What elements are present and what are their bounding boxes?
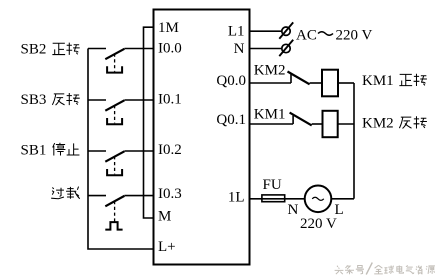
svg-text:N: N [234,41,245,57]
svg-text:1L: 1L [228,189,245,205]
tilde AC supply [318,32,333,36]
left bus wire [88,49,154,250]
svg-text:I0.0: I0.0 [158,41,182,57]
wire to coil KM2 [312,123,323,125]
svg-text:M: M [158,209,171,225]
svg-text:SB3: SB3 [21,92,47,108]
pushbutton SB1 linkage dash [114,156,116,174]
contact KM2 blade [288,72,310,85]
fuse FU [262,195,285,202]
terminal slash L1 [279,22,293,38]
wire SB2 row left [88,48,106,50]
contact KM1 blade [290,113,312,126]
overload linkage dash [114,201,116,222]
wire Q0.0 stub [250,82,292,84]
label fanzhuan SB3 [52,93,79,105]
watermark quanqiu dianqi ziyuan [374,265,435,274]
wire SB2 row right [124,48,153,50]
label tingzhi SB1 [53,143,80,156]
wire coil KM2 to bus [338,123,354,125]
svg-text:L1: L1 [228,24,245,40]
svg-text:I0.2: I0.2 [158,142,182,158]
contact KM2 tick [290,75,292,84]
right bus wire L [353,83,355,199]
svg-text:KM1: KM1 [362,73,394,89]
svg-text:N: N [288,202,299,218]
svg-text:1M: 1M [158,20,179,36]
terminal circle N [282,44,290,52]
PLC box [154,10,250,265]
wire to coil KM1 [310,82,322,84]
wire overload row left [88,195,106,197]
label zhengzhuan KM1 [399,74,427,86]
terminal slash N [279,40,293,56]
wire source to bus [331,198,354,200]
fuse wire through [262,198,285,200]
watermark slash [366,263,372,275]
wire SB3 row right [124,99,153,101]
AC source circle [305,186,332,213]
wire SB1 row right [124,150,153,152]
wire overload row right [124,195,153,197]
pushbutton SB3 contact blade [105,100,124,110]
label zhengzhuan SB2 [52,43,79,55]
svg-text:I0.3: I0.3 [158,186,182,202]
terminal circle L1 [282,27,290,35]
svg-text:AC: AC [296,28,317,44]
pushbutton SB1 actuator cup [107,169,122,175]
svg-text:SB1: SB1 [21,142,47,158]
wire SB3 row left [88,99,106,101]
svg-text:Q0.0: Q0.0 [216,73,246,89]
svg-text:220 V: 220 V [300,216,337,232]
svg-text:SB2: SB2 [21,41,47,57]
wire coil KM1 to bus [338,82,354,84]
overload contact blade [105,196,124,206]
wire N stub [250,48,283,50]
coil KM1 [322,70,338,97]
wire Q0.1 stub [250,123,294,125]
label fanzhuan KM2 [399,116,427,128]
1M-M bus wire [144,27,154,218]
pushbutton SB2 actuator cup [107,66,122,72]
svg-text:KM2: KM2 [254,63,286,79]
AC source tilde [312,197,324,200]
svg-text:I0.1: I0.1 [158,91,182,107]
svg-text:FU: FU [263,177,282,193]
pushbutton SB1 contact blade [105,151,124,161]
label guozai overload [51,187,80,199]
wire SB1 row left [88,150,106,152]
wire 1L stub [250,198,305,200]
wire L1 stub [250,30,283,32]
watermark toutiaohao [335,265,364,274]
svg-text:Q0.1: Q0.1 [216,112,246,128]
svg-text:KM1: KM1 [254,107,286,123]
svg-text:L+: L+ [158,239,176,255]
pushbutton SB2 contact blade [105,49,124,59]
pushbutton SB3 actuator cup [107,118,122,124]
pushbutton SB3 linkage dash [114,105,116,123]
pushbutton SB2 linkage dash [114,54,116,72]
svg-text:220 V: 220 V [336,28,373,44]
contact KM1 tick [292,116,294,124]
svg-text:KM2: KM2 [362,116,394,132]
coil KM2 [323,111,338,137]
overload thermal element symbol [105,222,122,230]
